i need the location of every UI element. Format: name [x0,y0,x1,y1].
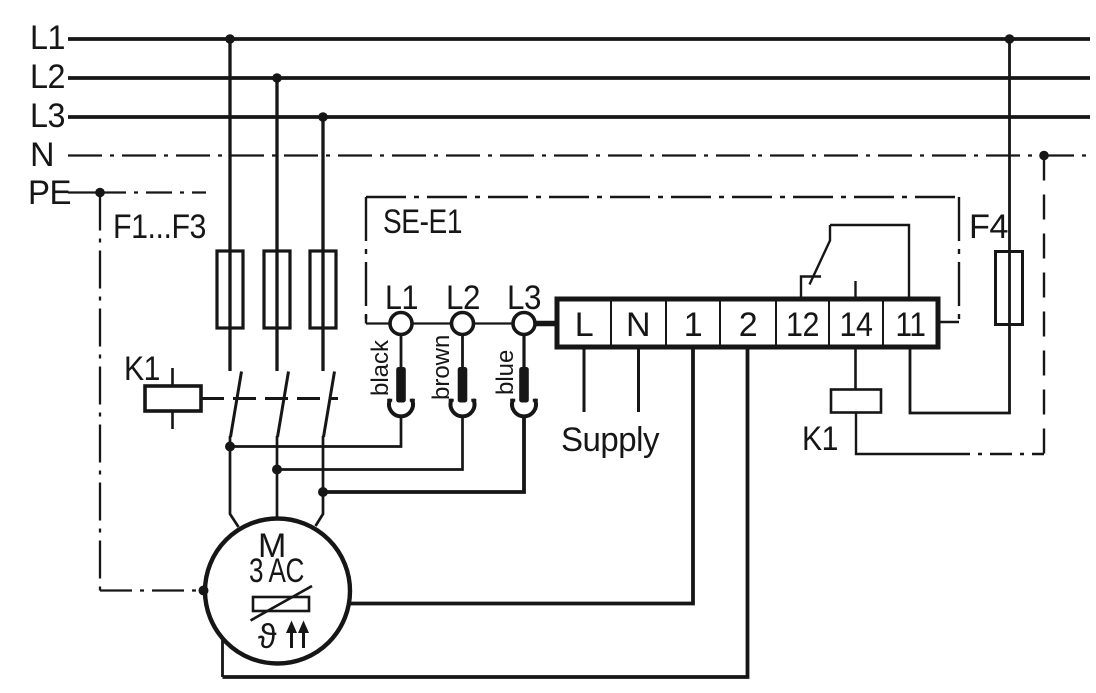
wire blue upper [522,335,525,370]
svg-text:L1: L1 [30,19,65,57]
contactor K1 coil stubs [171,368,174,429]
thermistor body [253,597,309,611]
wire thermistor left lead [223,604,254,677]
node L1 tap [225,34,235,44]
wire pole2 lower [276,436,279,518]
svg-text:K1: K1 [124,350,160,388]
node N tap [1039,151,1049,161]
svg-text:3 AC: 3 AC [249,552,304,590]
svg-text:black: black [367,339,394,396]
terminal L3 circle [513,313,535,335]
terminal L1 circle [390,313,412,335]
svg-text:12: 12 [786,306,819,344]
relay K1 coil [831,390,881,413]
wire pole3 to blue lead [323,415,524,492]
svg-text:L: L [575,306,593,344]
contactor pole 2 blade [278,372,289,438]
svg-text:Supply: Supply [561,421,659,459]
motor M circle [205,519,350,664]
wire brown upper [461,335,464,370]
bus line PE [68,191,100,193]
wire supply L stub [583,347,586,412]
svg-text:11: 11 [896,306,926,344]
fuse F2 [264,251,290,328]
svg-text:F1...F3: F1...F3 [113,208,206,246]
brown sleeve [458,367,468,403]
node pole3 junction [318,487,328,497]
SE-E1 box right border [938,197,959,322]
bus line N (dash-dot) [68,154,1090,156]
SE-E1 box left border [365,197,367,323]
wire pole2 to brown lead [277,415,463,470]
relay contact NO stub (terminal 14) [854,281,856,299]
contactor K1 coil [145,386,201,411]
wire L2 dropper [275,78,278,371]
node pole2 junction [272,465,282,475]
node L3 tap [318,112,328,122]
relay contact NC fixed (terminal 12) [801,277,821,300]
blue sleeve [519,367,529,403]
terminal block outline [557,299,938,347]
wire terminal row [366,322,535,324]
terminal block dividers [611,302,883,345]
bus line L3 [68,115,1090,119]
SE-E1 box top border [366,196,960,198]
wire terminal 2 to thermistor return [223,347,748,677]
wire supply N stub [637,347,640,412]
fuse F1 [217,251,243,328]
wire K1 coil to N [856,413,948,455]
svg-text:brown: brown [428,335,455,400]
bus line L2 [68,76,1090,80]
contactor pole 1 blade [231,372,242,438]
node PE to motor frame [199,586,209,596]
svg-text:ϑ: ϑ [258,618,277,656]
wire PE to motor (dash-dot) [100,589,203,591]
wire PE dropper (dash-dot) [99,193,101,591]
svg-text:K1: K1 [802,420,838,458]
theta arrow 1 [290,630,293,648]
svg-text:14: 14 [840,306,873,344]
relay contact top rail [830,225,909,299]
wire 14 to K1 coil [854,347,857,390]
wire pole1 to black lead [230,415,401,447]
svg-text:SE-E1: SE-E1 [383,203,462,241]
relay contact blade [810,225,831,285]
wire pole1 lower [230,436,239,527]
wire L1 to F4 to 11 [910,39,1010,413]
fuse F3 [310,251,336,328]
wire black upper [400,335,403,370]
node L1 tap right [1005,34,1015,44]
svg-text:2: 2 [739,306,757,344]
fuse F4 [996,252,1023,325]
svg-text:F4: F4 [969,208,1008,246]
wire L3 to block (thick) [533,321,559,327]
wire L3 dropper [321,117,324,371]
svg-text:PE: PE [28,174,71,212]
bus line L1 [68,37,1090,41]
node L2 tap [272,73,282,83]
node pole1 junction [225,442,235,452]
svg-text:N: N [626,306,650,344]
theta arrow 2 [302,630,305,648]
wire pole3 lower [316,436,324,526]
node PE tap [95,188,105,198]
terminal L2 circle [452,313,474,335]
black hook [389,401,413,417]
contactor pole 3 blade [324,372,335,438]
svg-text:L3: L3 [30,97,65,135]
svg-text:blue: blue [492,350,519,395]
black sleeve [396,367,406,403]
brown hook [451,401,475,417]
svg-text:L2: L2 [30,58,65,96]
svg-text:N: N [30,136,54,174]
blue hook [512,401,536,417]
contactor K1 linkage (dashed) [201,397,338,400]
wire terminal 1 to thermistor [309,347,693,604]
wire L1 dropper [228,39,231,371]
thermistor diagonal [251,586,313,621]
svg-text:1: 1 [684,306,702,344]
wire N dropper (dashed) [1043,156,1045,455]
